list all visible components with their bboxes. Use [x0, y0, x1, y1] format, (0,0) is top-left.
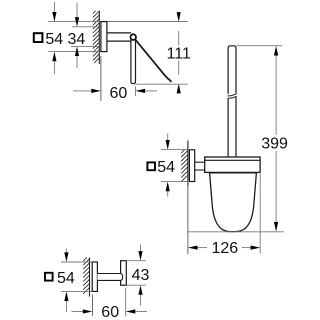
dim 111 line top arrow fig1: [177, 12, 181, 45]
dim 54 top arrow fig3: [64, 249, 68, 263]
dim 34 bottom arrow fig1: [75, 46, 79, 68]
60 right extension line fig3: [125, 288, 127, 317]
399 bottom extension line fig2: [188, 231, 284, 233]
flap spring fig1: [135, 40, 171, 82]
dim 111 line bottom arrow fig1: [177, 61, 181, 94]
svg-text:399: 399: [261, 135, 288, 152]
brush handle lower part fig2: [227, 99, 229, 157]
arm bottom line fig2: [195, 169, 205, 171]
bowl beaker fig2: [210, 173, 257, 232]
43 top extension line fig3: [127, 260, 146, 262]
label square54 fig1: [34, 33, 43, 42]
arm top line fig1: [107, 32, 131, 34]
pivot circle fig1: [130, 34, 136, 40]
label square54 fig2: [147, 162, 155, 170]
34 bottom extension line fig1: [71, 45, 99, 47]
mounting plate fig3: [92, 262, 97, 291]
43 bottom extension line fig3: [127, 284, 146, 286]
arm top line fig2: [195, 161, 205, 163]
111 bottom extension line fig1: [136, 83, 188, 85]
wall extension down fig2: [187, 186, 189, 254]
54 bottom extension line fig1: [48, 51, 101, 53]
60 right extension line fig1: [135, 87, 137, 97]
holder rim fig2: [205, 157, 260, 172]
dim 54 top arrow fig1: [52, 2, 56, 22]
dim 54 bottom arrow fig2: [166, 182, 170, 197]
svg-text:34: 34: [68, 31, 86, 48]
svg-text:54: 54: [57, 270, 75, 287]
hook front plate fig3: [121, 261, 127, 286]
wall line fig2: [187, 141, 189, 187]
wall hatching fig3: [83, 257, 89, 293]
54 top extension line fig3: [61, 261, 92, 263]
34 top extension line fig1: [72, 26, 99, 28]
svg-text:54: 54: [157, 159, 175, 176]
dim 54 bottom arrow fig3: [64, 291, 68, 312]
dim 60 left arrow fig3: [72, 309, 93, 313]
399 top extension line fig2: [237, 45, 283, 47]
svg-text:60: 60: [101, 304, 119, 320]
wall hatching fig2: [181, 149, 188, 181]
mounting plate fig1: [101, 22, 107, 52]
roller rod fig1: [131, 39, 136, 84]
dim 60 left arrow fig1: [73, 89, 101, 93]
dim 399 bottom arrow fig2: [274, 151, 278, 232]
hook stem fig3: [97, 274, 122, 281]
dim 34 top arrow fig1: [75, 3, 79, 27]
111 top extension line fig1: [107, 21, 188, 23]
wall line fig3: [89, 258, 91, 297]
54 bottom extension line fig3: [61, 290, 92, 292]
wall line fig1: [98, 11, 100, 64]
dim 43 bottom arrow fig3: [138, 285, 142, 305]
dim 60 right arrow fig1: [136, 89, 158, 93]
dim 43 top arrow fig3: [138, 245, 142, 261]
svg-text:111: 111: [167, 45, 191, 62]
mounting plate fig2: [189, 150, 194, 182]
dim 60 right arrow fig3: [126, 309, 147, 313]
54 top extension line fig1: [48, 21, 101, 23]
svg-text:43: 43: [132, 267, 150, 284]
handle break marks fig2: [228, 94, 237, 96]
svg-text:54: 54: [45, 31, 63, 48]
54 bottom extension line fig2: [161, 181, 188, 183]
wall extension line down to 60-dim fig1: [100, 56, 102, 101]
dim 126 right arrow fig2: [242, 246, 260, 250]
svg-text:60: 60: [110, 85, 128, 102]
rim lip line fig2: [205, 159, 260, 161]
126 right extension line fig2: [259, 174, 261, 254]
label square54 fig3: [45, 273, 53, 281]
brush handle upper part fig2: [228, 46, 236, 94]
arm bottom line fig1: [107, 40, 131, 42]
dim 54 top arrow fig2: [166, 134, 170, 150]
svg-text:126: 126: [211, 240, 238, 257]
wall hatching fig1: [93, 11, 99, 63]
dim 54 bottom arrow fig1: [52, 52, 56, 74]
dim 399 top arrow fig2: [274, 46, 278, 135]
54 top extension line fig2: [161, 149, 188, 151]
dim 126 left arrow fig2: [188, 246, 207, 250]
60 left extension line fig3: [91, 295, 93, 316]
